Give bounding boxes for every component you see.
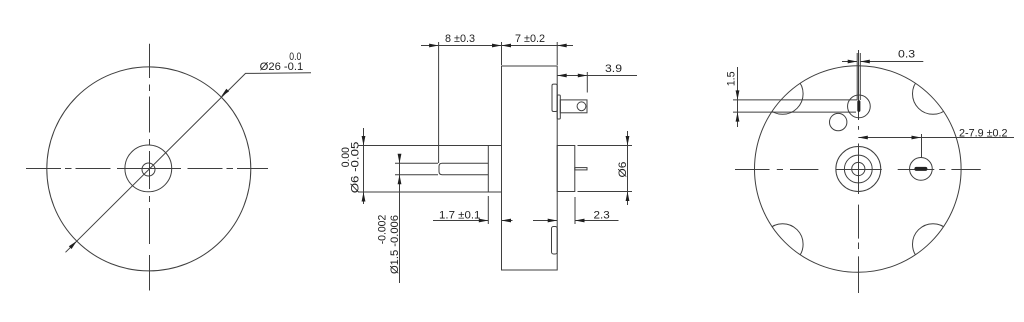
horizontal centerline (left view) [26, 168, 268, 170]
svg-text:1.7 ±0.1: 1.7 ±0.1 [439, 210, 480, 222]
upper terminal pin hole [577, 102, 586, 111]
arrowhead lower-left of dia 26 leader [69, 241, 77, 249]
lower terminal base plate [552, 227, 558, 255]
svg-text:0.3: 0.3 [898, 49, 915, 61]
dimension dia 6 rear boss: top extension line [578, 145, 633, 147]
front bearing boss [488, 146, 501, 193]
dimension 2-7.9 +-0.2: left arrowhead [858, 136, 868, 140]
dimension dia 1.5 shaft: bottom arrowhead [398, 175, 402, 185]
dimension dia 1.5 shaft: bottom extension line [395, 174, 438, 176]
dimension 0.3: right arrowhead [860, 60, 870, 64]
right terminal slot (filled) [914, 167, 927, 171]
rear hub outer circle [836, 147, 881, 192]
dimension dia 1.5 shaft: top extension line [395, 162, 438, 164]
dimension 7 +-0.2: left arrowhead [502, 44, 512, 48]
dimension dia 6 front boss: bottom arrowhead [362, 192, 366, 202]
svg-text:-0.002: -0.002 [376, 215, 388, 245]
rear shaft stub [575, 168, 587, 170]
dimension dia 1.5 shaft: top arrowhead [398, 154, 402, 164]
dimension 0.3: left tail [842, 61, 857, 63]
arrowhead upper-right of dia 26 leader [221, 89, 229, 97]
dimension dia 6 rear boss: dimension line [627, 131, 629, 205]
dimension 0.3: left arrowhead [848, 60, 858, 64]
dimension 2.3: left arrowhead [548, 219, 558, 223]
dimension dia 6 rear boss: bottom arrowhead [626, 192, 630, 202]
svg-text:Ø6: Ø6 [617, 162, 629, 178]
dimension 8 +-0.3: left arrowhead [429, 44, 439, 48]
svg-text:1.5: 1.5 [725, 71, 737, 86]
upper terminal outer plate [557, 95, 560, 119]
svg-text:8 ±0.3: 8 ±0.3 [445, 33, 475, 45]
upper terminal base plate (inside) [552, 84, 557, 111]
horizontal centerline (right view) [735, 169, 981, 171]
motor housing rear outline circle [755, 66, 962, 273]
top terminal circle [848, 95, 871, 118]
dimension 7 +-0.2: extension line left (body front) [501, 42, 503, 65]
diameter dimension leader line for dia 26 [66, 73, 312, 253]
dimension 8 +-0.3: dimension line [421, 45, 502, 47]
small pilot hole [830, 113, 847, 130]
rear bearing boss [557, 146, 575, 192]
dimension 3.9: dimension line [557, 75, 637, 77]
svg-text:0.0: 0.0 [289, 51, 301, 63]
dimension 0.3: left extension line [856, 53, 858, 100]
motor body rectangle [502, 66, 558, 270]
dimension 0.3: right tail [860, 61, 923, 63]
vertical centerline (right view) [858, 50, 860, 293]
svg-text:7 ±0.2: 7 ±0.2 [515, 33, 545, 45]
dimension 1.7 +-0.1: right tail [502, 220, 513, 222]
dimension dia 6 front boss: top extension line [359, 145, 489, 147]
dimension 1.5: bottom extension line [733, 111, 856, 113]
right terminal circle [910, 158, 933, 181]
dimension 2-7.9 +-0.2: dimension line [858, 137, 1014, 139]
dimension dia 1.5 shaft: dimension line [399, 154, 401, 283]
vertical centerline (left view) [149, 44, 151, 291]
dimension 7 +-0.2: right arrowhead [557, 44, 567, 48]
dimension 2.3: dimension line left tail [533, 220, 557, 222]
dimension 2-7.9 +-0.2: right arrowhead [912, 136, 922, 140]
svg-text:2-7.9 ±0.2: 2-7.9 ±0.2 [959, 128, 1008, 140]
top terminal slot (filled) [857, 100, 860, 112]
svg-text:3.9: 3.9 [605, 63, 622, 75]
dimension 1.7 +-0.1: left arrowhead [479, 219, 489, 223]
front bearing boss circle [125, 145, 172, 192]
dimension 1.7 +-0.1: extension line [487, 196, 489, 224]
dimension 8 +-0.3: right arrowhead [492, 44, 502, 48]
shaft circle [142, 163, 155, 176]
dimension 8 +-0.3: extension line at shaft tip [438, 42, 440, 163]
dimension 3.9: extension line at pin end [586, 72, 588, 93]
dimension 1.5: bottom arrowhead [736, 112, 740, 122]
dimension 1.7 +-0.1: right arrowhead [502, 219, 512, 223]
four vent notch arcs clipped inside housing circle [762, 73, 953, 264]
motor shaft [439, 163, 488, 174]
dimension 1.5: dimension line [737, 67, 739, 127]
dimension 2.3: right arrowhead [575, 219, 585, 223]
dimension 2.3: extension line at rear boss [574, 197, 576, 224]
dimension 7 +-0.2: extension line right (body rear) [556, 42, 558, 65]
dimension 3.9: left arrowhead [557, 74, 567, 78]
dimension dia 6 front boss: top arrowhead [362, 136, 366, 146]
dimension dia 6 rear boss: bottom extension line [578, 191, 633, 193]
svg-text:Ø1.5 -0.006: Ø1.5 -0.006 [389, 215, 401, 274]
rear shaft stub circle [852, 162, 865, 175]
dimension dia 6 front boss: dimension line [363, 128, 365, 204]
dimension 0.3: right extension line [859, 53, 861, 100]
upper terminal pin [560, 100, 587, 113]
dimension 1.5: top arrowhead [736, 90, 740, 100]
rear hub middle circle [844, 155, 872, 183]
dimension 7 +-0.2: dimension line [502, 45, 574, 47]
dimension 2-7.9 +-0.2: extension line at terminal [921, 134, 923, 158]
dimension 2.3: dimension line right part [575, 220, 619, 222]
dimension 3.9: right arrowhead [578, 74, 588, 78]
svg-text:0.00: 0.00 [340, 147, 352, 167]
dimension dia 6 front boss: bottom extension line [359, 191, 489, 193]
dimension dia 6 rear boss: top arrowhead [626, 136, 630, 146]
svg-text:2.3: 2.3 [594, 210, 610, 222]
dimension 1.5: top extension line [733, 99, 857, 101]
dimension 1.7 +-0.1: dimension line left part [433, 220, 488, 222]
motor housing outline circle, dia 26 [47, 67, 251, 271]
